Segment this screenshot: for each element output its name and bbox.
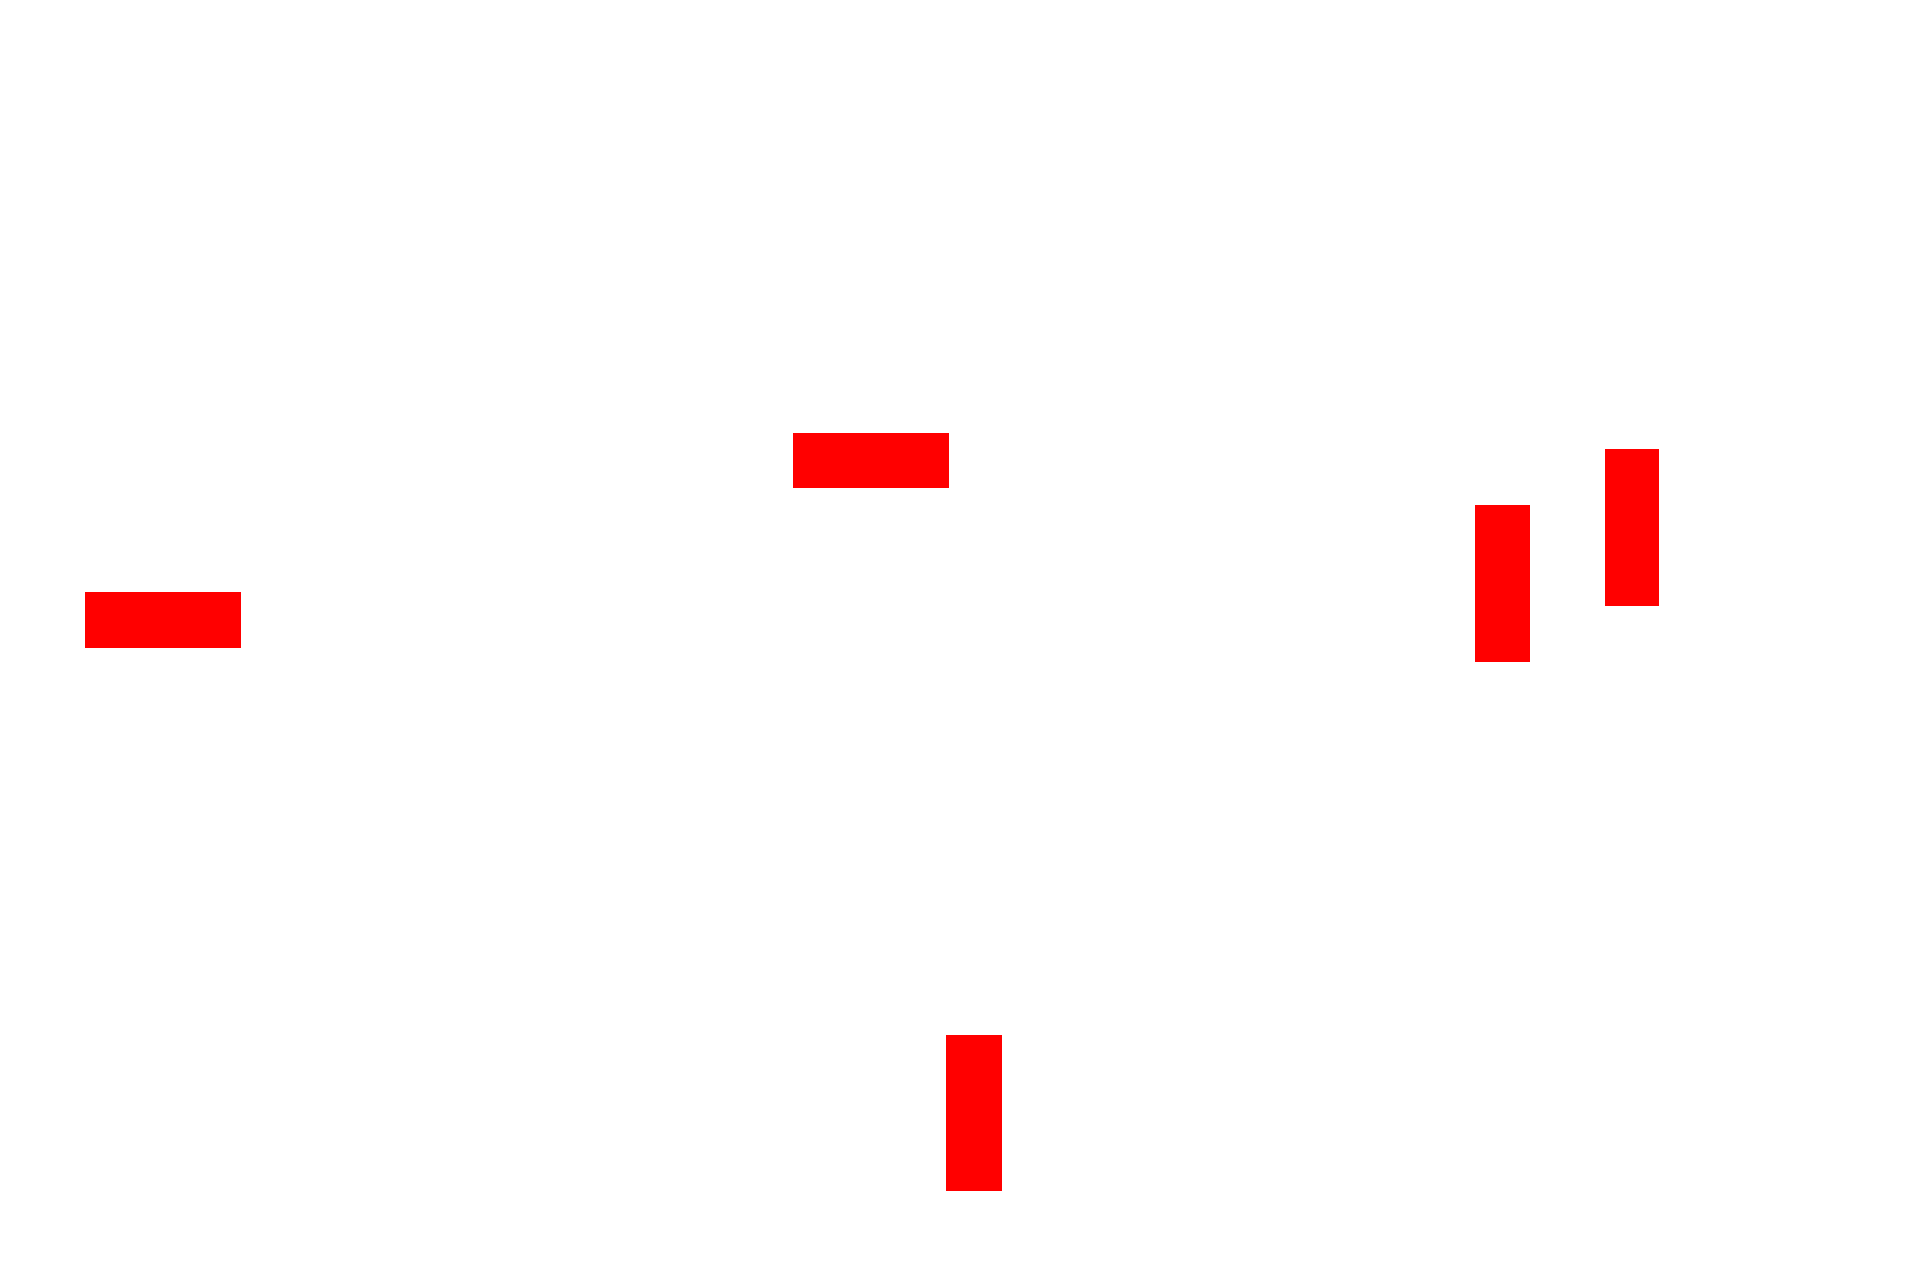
red rectangle 2 (left, horizontal)	[85, 592, 241, 648]
red rectangle 3 (right, vertical)	[1475, 505, 1530, 662]
red rectangle 1 (top middle, horizontal)	[793, 433, 949, 488]
red rectangle 5 (bottom middle, vertical)	[946, 1035, 1002, 1191]
red rectangle 4 (far right, vertical)	[1605, 449, 1659, 606]
